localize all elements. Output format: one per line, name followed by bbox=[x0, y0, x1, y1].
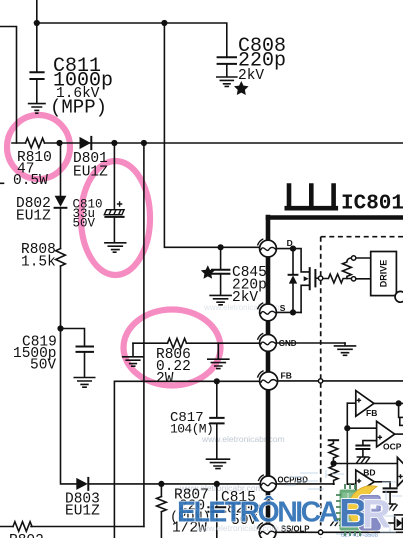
wire: left entry L-bend bbox=[0, 27, 17, 144]
driver output circle bbox=[395, 291, 403, 302]
svg-text:2kV: 2kV bbox=[232, 290, 258, 306]
pin S bbox=[258, 303, 286, 321]
svg-text:DRIVE: DRIVE bbox=[379, 260, 389, 288]
gate resistor bbox=[323, 274, 352, 283]
pink highlight ellipse around R810 bbox=[7, 115, 70, 179]
capacitor at BD output bbox=[384, 488, 397, 503]
star mark near C808 bbox=[234, 81, 249, 95]
node dot body diode top bbox=[290, 246, 296, 252]
node dot C819 tap bbox=[57, 325, 63, 331]
wire: vertical input bus to amps bbox=[347, 403, 356, 484]
wire: source internal bbox=[276, 311, 301, 313]
ground below C817 bbox=[207, 459, 230, 468]
pin OCP/BD bbox=[258, 475, 308, 492]
op-amp right edge (clipped) bbox=[397, 457, 403, 486]
diode D802 bbox=[55, 143, 67, 249]
node gate on dashed line bbox=[318, 276, 322, 280]
svg-text:IC801: IC801 bbox=[341, 193, 403, 216]
wire: SS/OLP net bbox=[276, 531, 403, 533]
hatch ground BD cap bbox=[384, 504, 398, 511]
hatch marks lower-left of logo bbox=[330, 520, 344, 526]
wire: OCP lower input to cap bbox=[363, 441, 377, 446]
ground below C808 bbox=[217, 77, 237, 86]
watermark faint circuit doodles bbox=[286, 470, 402, 535]
node dot body diode bottom bbox=[290, 309, 296, 315]
ground stub mid GND rail bbox=[208, 343, 229, 368]
svg-text:www.eletronicabr.com.br: www.eletronicabr.com.br bbox=[195, 523, 289, 533]
node FB on dashed line bbox=[318, 379, 322, 383]
ground below C811 bbox=[29, 104, 45, 114]
pin FB bbox=[257, 371, 291, 390]
wire: FB output drop to box bbox=[398, 403, 400, 417]
svg-text:R: R bbox=[362, 493, 391, 537]
wire: OCP/BD rail bbox=[88, 483, 334, 485]
wire: bottom rail with corner bbox=[0, 526, 144, 528]
pink highlight ellipse around R806 bbox=[124, 310, 221, 386]
node dot R807 tap bbox=[158, 481, 164, 487]
svg-text:R802: R802 bbox=[9, 533, 44, 538]
diode D803 bbox=[76, 478, 88, 490]
resistor R802 bottom-left bbox=[13, 522, 32, 532]
node dot C810 top bbox=[111, 140, 117, 146]
wire: divider tap to comparator bbox=[334, 463, 398, 465]
svg-text:0.5W: 0.5W bbox=[13, 173, 48, 189]
ground below C819 bbox=[74, 378, 94, 388]
svg-text:S: S bbox=[280, 303, 286, 313]
dashed internal block boundary bbox=[321, 237, 403, 538]
node circle drive bottom bbox=[351, 277, 355, 281]
svg-text:EU1Z: EU1Z bbox=[65, 504, 100, 520]
node circle drive top bbox=[351, 256, 355, 260]
resistor R807 bbox=[157, 484, 167, 538]
pin GND bbox=[258, 333, 297, 351]
star mark near C845 bbox=[201, 265, 215, 278]
node junction dot top-left bbox=[34, 20, 40, 26]
svg-text:627 417-3508: 627 417-3508 bbox=[341, 533, 379, 538]
capacitor C811 bbox=[30, 72, 43, 103]
wire: drive inputs bbox=[356, 258, 371, 279]
node dot C815 tap bbox=[214, 481, 220, 487]
wire: top horizontal rail to C808 bbox=[37, 23, 227, 57]
wire: snubber vertical x=164 to C845/D rail bbox=[164, 23, 260, 247]
wire: left edge stub bbox=[0, 182, 4, 184]
node dot vertical riser top bbox=[141, 140, 147, 146]
wire: D802/R808 vertical down to D803 bbox=[61, 266, 77, 484]
capacitor C819 bbox=[61, 329, 94, 378]
svg-text:EU1Z: EU1Z bbox=[16, 209, 51, 225]
resistor R806 bbox=[168, 338, 187, 348]
node dot FB output bbox=[396, 400, 402, 406]
wire: FB amp output bbox=[374, 402, 403, 404]
watermark chip logo bbox=[336, 484, 381, 536]
node dot amp input bus bbox=[344, 425, 350, 431]
pull resistor vertical bbox=[343, 258, 352, 279]
svg-text:FB: FB bbox=[366, 408, 377, 418]
wire: FB net horizontal + left drop bbox=[114, 381, 260, 538]
node SS/OLP on dashed line bbox=[318, 530, 322, 534]
svg-text:(MPP): (MPP) bbox=[50, 97, 107, 119]
IC801 outline top edge bbox=[268, 215, 403, 220]
node dot C817 tap bbox=[214, 378, 220, 384]
svg-text:2W: 2W bbox=[156, 371, 174, 387]
svg-text:2kV: 2kV bbox=[238, 68, 264, 84]
wire: mid vertical riser x=144 down to bottom rail bbox=[143, 143, 145, 527]
node dot divider tap bbox=[331, 460, 337, 466]
svg-text:www.eletronicabr.com: www.eletronicabr.com bbox=[201, 434, 285, 444]
resistor R810 bbox=[26, 138, 45, 148]
svg-text:FB: FB bbox=[281, 371, 292, 381]
resistor divider lower bbox=[329, 464, 338, 485]
ground left of R806 bbox=[123, 343, 144, 366]
capacitor at OCP input bbox=[356, 446, 369, 457]
svg-text:GND: GND bbox=[279, 339, 297, 348]
wire: FB net right of pin bbox=[278, 380, 403, 382]
diode box bottom right (clipped) bbox=[381, 515, 403, 529]
capacitor C817 bbox=[210, 381, 223, 458]
DRIVE block bbox=[371, 252, 397, 296]
ground below C845 bbox=[210, 295, 231, 304]
wire: OCP output bbox=[395, 433, 403, 435]
svg-text:D: D bbox=[287, 238, 293, 248]
ground below C810 bbox=[105, 243, 126, 252]
wire: main horizontal line y=143 bbox=[12, 142, 403, 144]
capacitor C810 (polarized) bbox=[104, 143, 124, 242]
resistor divider upper bbox=[329, 440, 338, 463]
capacitor C845 bbox=[212, 247, 229, 295]
svg-text:EU1Z: EU1Z bbox=[73, 165, 108, 181]
op-amp OCP bbox=[377, 421, 402, 451]
svg-text:50V: 50V bbox=[30, 358, 56, 374]
wire: drain internal bbox=[276, 249, 308, 272]
svg-text:BD: BD bbox=[363, 468, 375, 478]
resistor R808 bbox=[56, 249, 66, 267]
capacitor C815 bbox=[208, 484, 225, 538]
wire: GND net left of pin with R806 bbox=[133, 342, 345, 344]
box at right edge (clipped) bbox=[400, 417, 403, 425]
diode D801 bbox=[80, 137, 92, 149]
wire: OCP top input bbox=[347, 427, 376, 429]
body diode internal bbox=[289, 249, 298, 313]
capacitor C808 bbox=[218, 57, 236, 76]
node junction dot top-mid bbox=[161, 20, 167, 26]
pin D bbox=[258, 238, 293, 257]
IC801 left bus bbox=[266, 217, 271, 538]
svg-text:1.5k: 1.5k bbox=[21, 255, 56, 271]
op-amp FB bbox=[347, 391, 377, 418]
svg-text:50V: 50V bbox=[73, 217, 96, 231]
op-amp BD bbox=[356, 468, 376, 494]
MOSFET internal bbox=[301, 268, 318, 312]
wire: top vertical into C811 bbox=[36, 0, 38, 72]
ground right of GND pin bbox=[335, 343, 356, 355]
node dot C845 tap bbox=[218, 244, 224, 250]
svg-text:OCP: OCP bbox=[383, 442, 402, 452]
node dot R810/D802 bbox=[56, 140, 62, 146]
svg-text:104(M): 104(M) bbox=[170, 422, 213, 437]
pink highlight ellipse around C810 bbox=[81, 161, 150, 275]
hatch ground OCP cap bbox=[356, 457, 370, 463]
wire: BD output to cap bbox=[374, 482, 390, 488]
IC801 heatsink symbol bbox=[287, 186, 336, 209]
pin SS/OLP bbox=[257, 523, 309, 538]
